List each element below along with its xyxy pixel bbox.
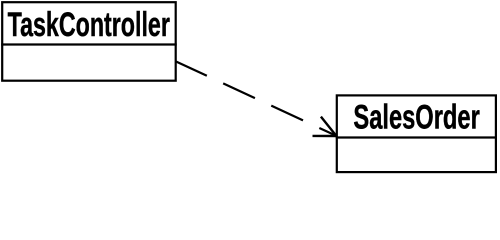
svg-text:SalesOrder: SalesOrder (353, 99, 479, 137)
svg-text:TaskController: TaskController (8, 6, 170, 44)
